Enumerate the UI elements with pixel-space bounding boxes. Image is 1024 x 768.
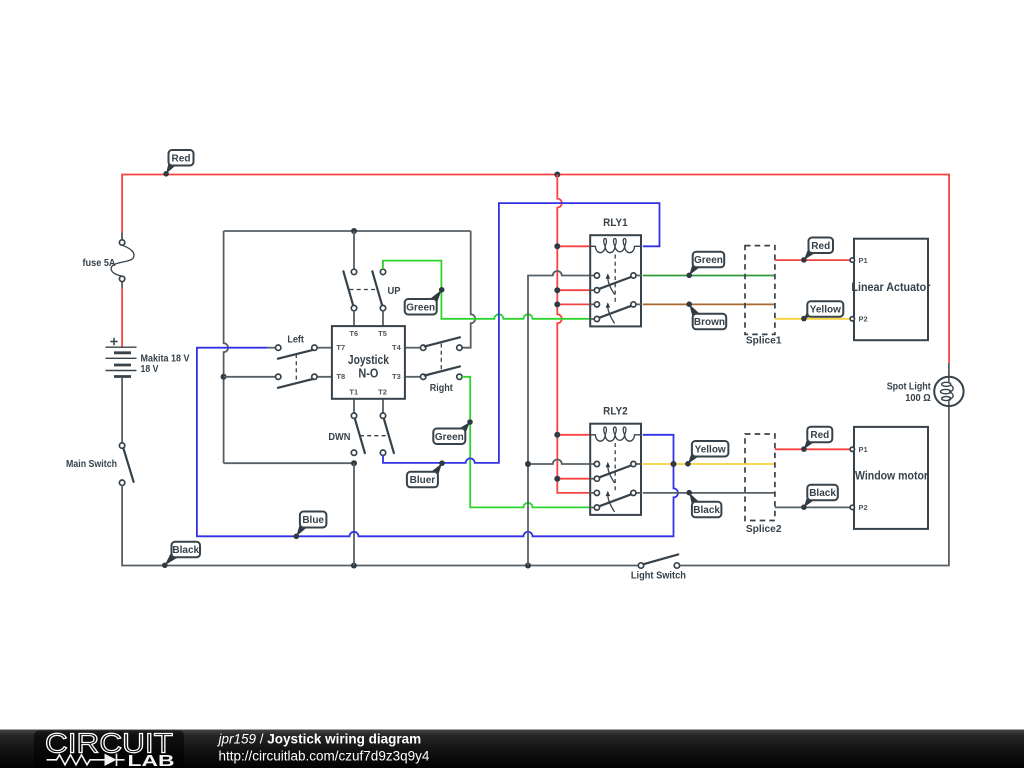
wire dark RLY2 common xyxy=(528,460,590,465)
svg-text:Splice2: Splice2 xyxy=(746,523,782,535)
svg-text:http://circuitlab.com/czuf7d9z: http://circuitlab.com/czuf7d9z3q9y4 xyxy=(219,748,430,763)
wire green Right T3 to RLY2 xyxy=(462,377,590,508)
switch DWN dual xyxy=(328,413,394,455)
flag label Black #14 xyxy=(801,485,838,510)
svg-text:18 V: 18 V xyxy=(141,363,159,375)
wire red RLY1 coil pin xyxy=(557,245,590,247)
wire brown RLY1 out xyxy=(643,303,775,305)
svg-text:UP: UP xyxy=(388,285,401,297)
wire blue Blue to RLY2 coil xyxy=(197,348,678,537)
svg-text:Blue: Blue xyxy=(302,515,324,526)
svg-text:P1: P1 xyxy=(859,256,868,265)
node red rail junctions xyxy=(554,243,560,481)
wire yellow RLY2 out xyxy=(643,463,775,465)
relay RLY1 xyxy=(590,235,641,326)
switch Right dual xyxy=(421,337,463,394)
wire red splice1 to actuator P1 xyxy=(775,259,850,261)
svg-text:Brown: Brown xyxy=(694,317,725,328)
wire green UP to RLY1 xyxy=(383,261,590,319)
flag label Red #13 xyxy=(801,427,832,452)
splice Splice1 xyxy=(745,246,782,347)
svg-text:RLY1: RLY1 xyxy=(603,217,628,229)
svg-text:Yellow: Yellow xyxy=(810,305,841,316)
svg-text:P1: P1 xyxy=(859,445,868,454)
flag label Green #7 xyxy=(686,252,724,278)
node bottom rail junctions xyxy=(351,563,357,569)
wire dark RLY2 black out xyxy=(643,492,775,494)
svg-text:Black: Black xyxy=(172,545,199,556)
wire joystick T1 pin xyxy=(353,399,355,413)
wire red battery feed xyxy=(121,288,123,347)
node box top junction xyxy=(351,228,357,234)
node top junction xyxy=(554,172,560,178)
svg-text:Joystick: Joystick xyxy=(348,353,389,367)
switch Left dual xyxy=(276,334,318,388)
svg-text:Red: Red xyxy=(172,153,191,164)
wire red relay rail xyxy=(557,175,590,493)
svg-text:P2: P2 xyxy=(859,503,868,512)
svg-text:Black: Black xyxy=(693,505,720,516)
svg-text:Splice1: Splice1 xyxy=(746,334,782,346)
wire joystick T2 pin xyxy=(382,399,384,413)
wire dark box bottom xyxy=(224,462,354,464)
lamp spot light xyxy=(887,363,964,406)
svg-text:Left: Left xyxy=(287,334,304,346)
fuse F1 5A xyxy=(83,233,134,289)
svg-text:Right: Right xyxy=(430,382,453,394)
flag label Bluer #4 xyxy=(407,460,445,487)
svg-text:P2: P2 xyxy=(859,315,868,324)
flag label Yellow #10 xyxy=(801,301,843,321)
wire dark splice2 to motor P2 xyxy=(775,506,850,508)
svg-text:RLY2: RLY2 xyxy=(603,406,628,418)
flag label Green #3 xyxy=(433,419,473,444)
wire light switch to lamp xyxy=(680,406,949,565)
wire joystick T7 pin xyxy=(317,347,332,349)
flag label Green #2 xyxy=(405,287,445,315)
svg-text:Red: Red xyxy=(810,430,829,441)
wire red RLY1 pin3 xyxy=(557,303,590,305)
svg-text:T3: T3 xyxy=(392,372,401,381)
footer bar xyxy=(0,730,1024,768)
svg-text:Bluer: Bluer xyxy=(410,475,436,486)
wire red top rail xyxy=(122,175,949,363)
svg-text:T1: T1 xyxy=(349,388,358,397)
wire blue stub to Left switch xyxy=(268,347,276,349)
svg-text:fuse 5A: fuse 5A xyxy=(83,257,116,269)
svg-text:Green: Green xyxy=(406,302,435,313)
svg-text:Yellow: Yellow xyxy=(695,444,726,455)
node RLY2 common junction xyxy=(525,461,531,467)
svg-text:T7: T7 xyxy=(336,343,345,352)
svg-text:Black: Black xyxy=(809,488,836,499)
svg-text:Window motor: Window motor xyxy=(855,468,928,482)
wire dark box top xyxy=(224,230,471,232)
svg-text:Linear Actuator: Linear Actuator xyxy=(851,280,930,294)
flag label Red #9 xyxy=(801,238,833,263)
wire dark RLY1 common to light circuit xyxy=(528,271,590,566)
wire dark box right to T4 xyxy=(462,231,475,348)
svg-text:T5: T5 xyxy=(378,329,387,338)
flag label Yellow #11 xyxy=(685,441,728,467)
svg-text:T6: T6 xyxy=(349,329,358,338)
wire red RLY2 pin2 xyxy=(557,478,590,480)
svg-text:Green: Green xyxy=(435,432,464,443)
svg-text:T2: T2 xyxy=(378,388,387,397)
wire red splice2 to motor P1 xyxy=(775,448,850,450)
flag label Blue #5 xyxy=(294,512,327,540)
wire joystick T3 pin xyxy=(405,376,421,378)
battery V1 Makita 18V xyxy=(106,338,190,377)
svg-text:LAB: LAB xyxy=(128,753,175,768)
wire dark box left xyxy=(224,231,229,463)
wire blue Bluer RLY1 coil xyxy=(383,203,660,463)
logo resistor diode icon xyxy=(47,754,125,766)
flag label Brown #8 xyxy=(686,301,726,329)
wire dark top to UP switch xyxy=(353,231,355,269)
node blue yellow junction xyxy=(671,461,677,467)
wire dark DWN column down xyxy=(353,463,355,565)
joystick U1 box xyxy=(332,326,405,399)
svg-text:Spot Light: Spot Light xyxy=(887,381,931,393)
switch SW main xyxy=(66,443,134,486)
svg-text:100 Ω: 100 Ω xyxy=(905,392,931,404)
wire red RLY1 pin2 xyxy=(557,289,590,291)
actuator M1 box xyxy=(850,239,931,341)
switch light switch xyxy=(631,554,686,581)
svg-text:Light Switch: Light Switch xyxy=(631,569,686,581)
relay RLY2 xyxy=(590,424,641,515)
switch UP dual xyxy=(343,269,400,311)
wire joystick T5 pin xyxy=(382,311,384,326)
flag label Black #12 xyxy=(686,490,721,517)
svg-text:N-O: N-O xyxy=(358,366,378,380)
wire ground rail bottom xyxy=(122,485,640,565)
splice Splice2 xyxy=(745,434,782,535)
flag label Black #6 xyxy=(162,542,200,568)
svg-text:jpr159 / Joystick wiring diagr: jpr159 / Joystick wiring diagram xyxy=(217,732,422,747)
svg-text:T8: T8 xyxy=(336,372,345,381)
svg-text:T4: T4 xyxy=(392,343,402,352)
wire joystick T6 pin xyxy=(353,311,355,326)
svg-text:DWN: DWN xyxy=(328,431,350,443)
flag label Red #1 xyxy=(163,150,193,177)
motor M2 box xyxy=(850,427,928,529)
wire battery to main switch xyxy=(121,378,123,443)
wire joystick T4 pin xyxy=(405,347,421,349)
node box left junction xyxy=(221,374,227,380)
wire dark left row2 feed xyxy=(224,376,276,378)
svg-text:Red: Red xyxy=(811,241,830,252)
node box bottom junction xyxy=(351,460,357,466)
wire red RLY2 coil pin xyxy=(557,434,590,436)
svg-text:Green: Green xyxy=(694,255,723,266)
wire yellow splice1 to actuator P2 xyxy=(775,318,850,320)
wire joystick T8 pin xyxy=(317,376,332,378)
wire dark-green RLY1 out xyxy=(643,275,775,277)
svg-text:Main Switch: Main Switch xyxy=(66,458,117,470)
